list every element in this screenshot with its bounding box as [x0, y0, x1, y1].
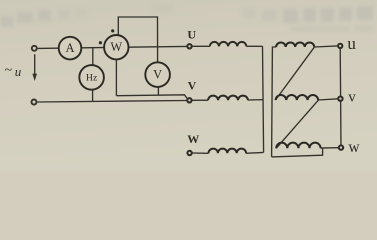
secondary winding S2	[276, 95, 319, 100]
svg-text:u: u	[15, 64, 22, 79]
wire secondary coil S3 to w terminal	[321, 147, 339, 149]
wire inductor L2 to star bus	[248, 99, 263, 101]
svg-text:U: U	[187, 27, 196, 41]
terminal u	[338, 44, 342, 48]
svg-text:W: W	[110, 40, 122, 54]
wire Hz top stub	[92, 48, 94, 65]
wire voltmeter bottom stub	[157, 87, 159, 95]
secondary winding S1	[276, 42, 314, 47]
source terminal top	[32, 46, 37, 51]
wire U terminal to inductor L1	[192, 45, 209, 47]
wire star bus (primary neutral)	[263, 46, 264, 152]
terminal w	[339, 145, 343, 149]
wire secondary shorting bus u-v-w	[339, 46, 342, 148]
wire W terminal to inductor L3	[193, 152, 209, 154]
inductor L3 (W phase)	[209, 149, 247, 154]
voltmeter V circle	[145, 62, 170, 87]
wire inductor L3 to star bus	[246, 151, 264, 154]
wire Hz bottom stub	[92, 90, 94, 102]
wire delta bottom closure	[272, 148, 323, 157]
terminal V	[187, 98, 191, 102]
svg-text:w: w	[348, 139, 360, 156]
inductor L1 (U phase)	[210, 42, 247, 46]
wire diagonal S1 end to S2 start	[276, 47, 315, 100]
polarity dot of W current coil	[99, 41, 102, 44]
wire diagonal S2 end to S3 start	[276, 100, 318, 148]
wire bottom main (source to V terminal)	[37, 101, 186, 103]
svg-text:A: A	[65, 41, 74, 55]
wire top main (source to U terminal)	[38, 46, 187, 48]
source terminal bottom	[32, 100, 37, 105]
svg-text:W: W	[187, 132, 199, 146]
svg-text:v: v	[348, 89, 356, 105]
inductor L2 (V phase)	[208, 96, 248, 101]
svg-text:Hz: Hz	[86, 73, 98, 84]
wire secondary coil S1 left corner	[272, 47, 277, 157]
wire wattmeter voltage-coil loop	[118, 17, 157, 62]
secondary winding S3	[276, 143, 320, 149]
wattmeter W circle	[104, 35, 128, 59]
svg-text:V: V	[188, 79, 197, 93]
wire V terminal to inductor L2	[192, 99, 208, 101]
wire arrow of source voltage u	[34, 54, 36, 75]
wire wattmeter bottom stub	[115, 59, 117, 95]
svg-text:~: ~	[5, 63, 13, 78]
frequency meter Hz circle	[79, 65, 104, 90]
wire secondary coil S2 to v terminal	[318, 99, 337, 100]
terminal U	[187, 44, 191, 48]
wire secondary coil S1 to u terminal	[314, 46, 337, 47]
wire V-phase link to V terminal	[116, 95, 186, 99]
ammeter A circle	[59, 37, 82, 60]
polarity dot of W voltage coil	[111, 29, 114, 32]
terminal W	[187, 151, 191, 155]
wire inductor L1 to star bus	[246, 45, 262, 47]
arrowhead of source voltage arrow	[32, 74, 37, 81]
svg-text:u: u	[347, 34, 356, 53]
terminal v	[338, 97, 342, 101]
svg-text:V: V	[153, 67, 162, 81]
